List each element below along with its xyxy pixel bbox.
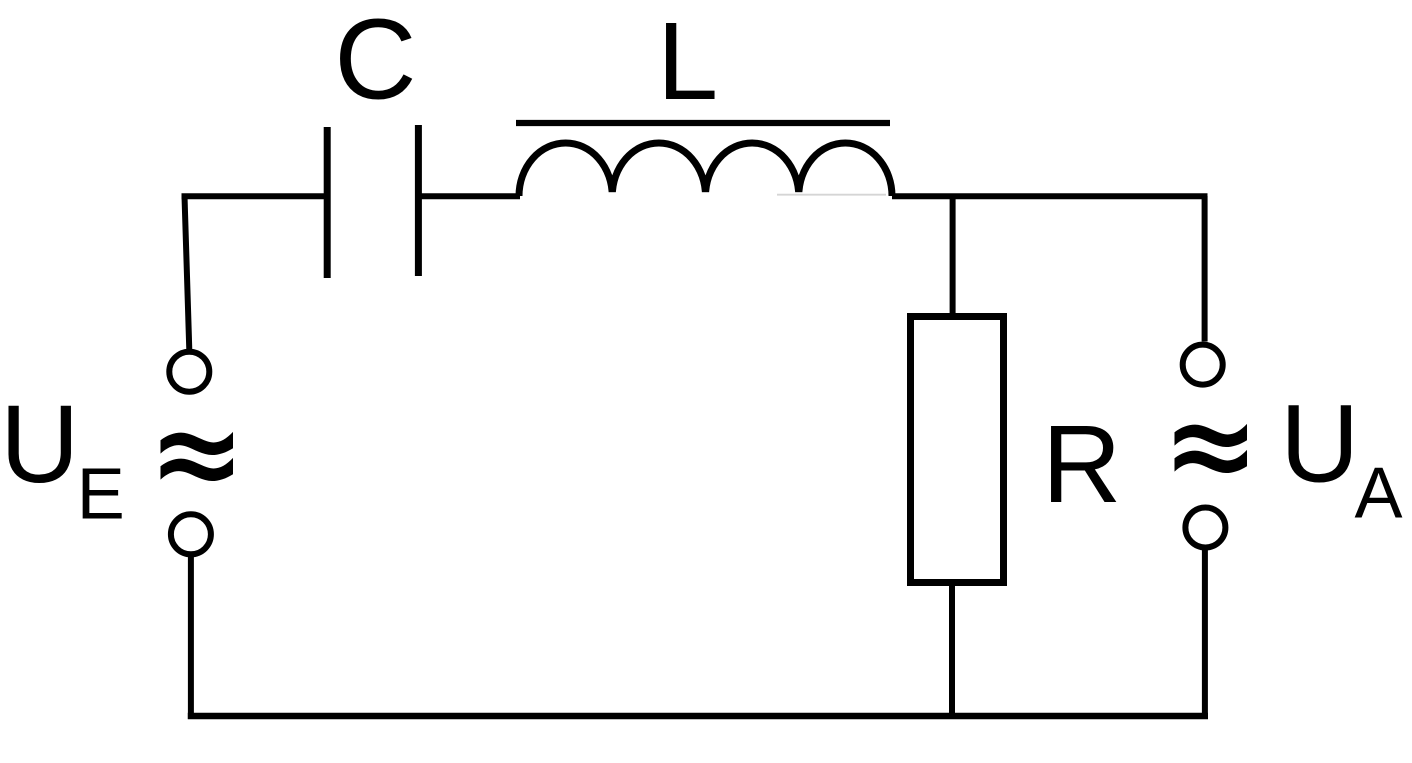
wire UA bottom vertical — [1202, 550, 1208, 719]
wire resistor to bottom — [949, 584, 955, 719]
wire slanted to UE top terminal — [185, 196, 190, 350]
terminal circle UA top — [1183, 345, 1223, 385]
resistor R body — [911, 317, 1004, 583]
wire inductor to top-right corner — [892, 193, 1208, 199]
capacitor C right plate — [415, 125, 422, 276]
inductor L windings — [519, 143, 892, 196]
capacitor C left plate — [324, 127, 331, 278]
svg-text:L: L — [657, 0, 718, 123]
terminal circle UE top — [169, 352, 209, 392]
white-out band under inductor windings — [526, 192, 885, 201]
AC source symbol UE (approx sign) — [161, 432, 234, 481]
inductor L core bar — [516, 120, 890, 126]
faint erased wire trace under inductor — [777, 194, 886, 196]
svg-text:E: E — [77, 455, 125, 535]
svg-text:U: U — [0, 383, 79, 506]
terminal circle UE bottom — [171, 514, 211, 554]
AC source symbol UA (approx sign) — [1175, 424, 1248, 473]
terminal circle UA bottom — [1185, 508, 1225, 548]
wire junction down to resistor — [950, 196, 956, 315]
svg-text:A: A — [1355, 454, 1403, 534]
svg-text:R: R — [1042, 403, 1121, 526]
wire bottom horizontal — [188, 713, 1208, 719]
wire top-left horizontal — [182, 193, 328, 199]
wire right vertical to UA top terminal — [1202, 196, 1208, 342]
svg-text:C: C — [334, 0, 416, 124]
wire capacitor to inductor — [418, 193, 520, 199]
svg-text:U: U — [1280, 383, 1359, 506]
wire UE bottom vertical — [188, 556, 194, 719]
